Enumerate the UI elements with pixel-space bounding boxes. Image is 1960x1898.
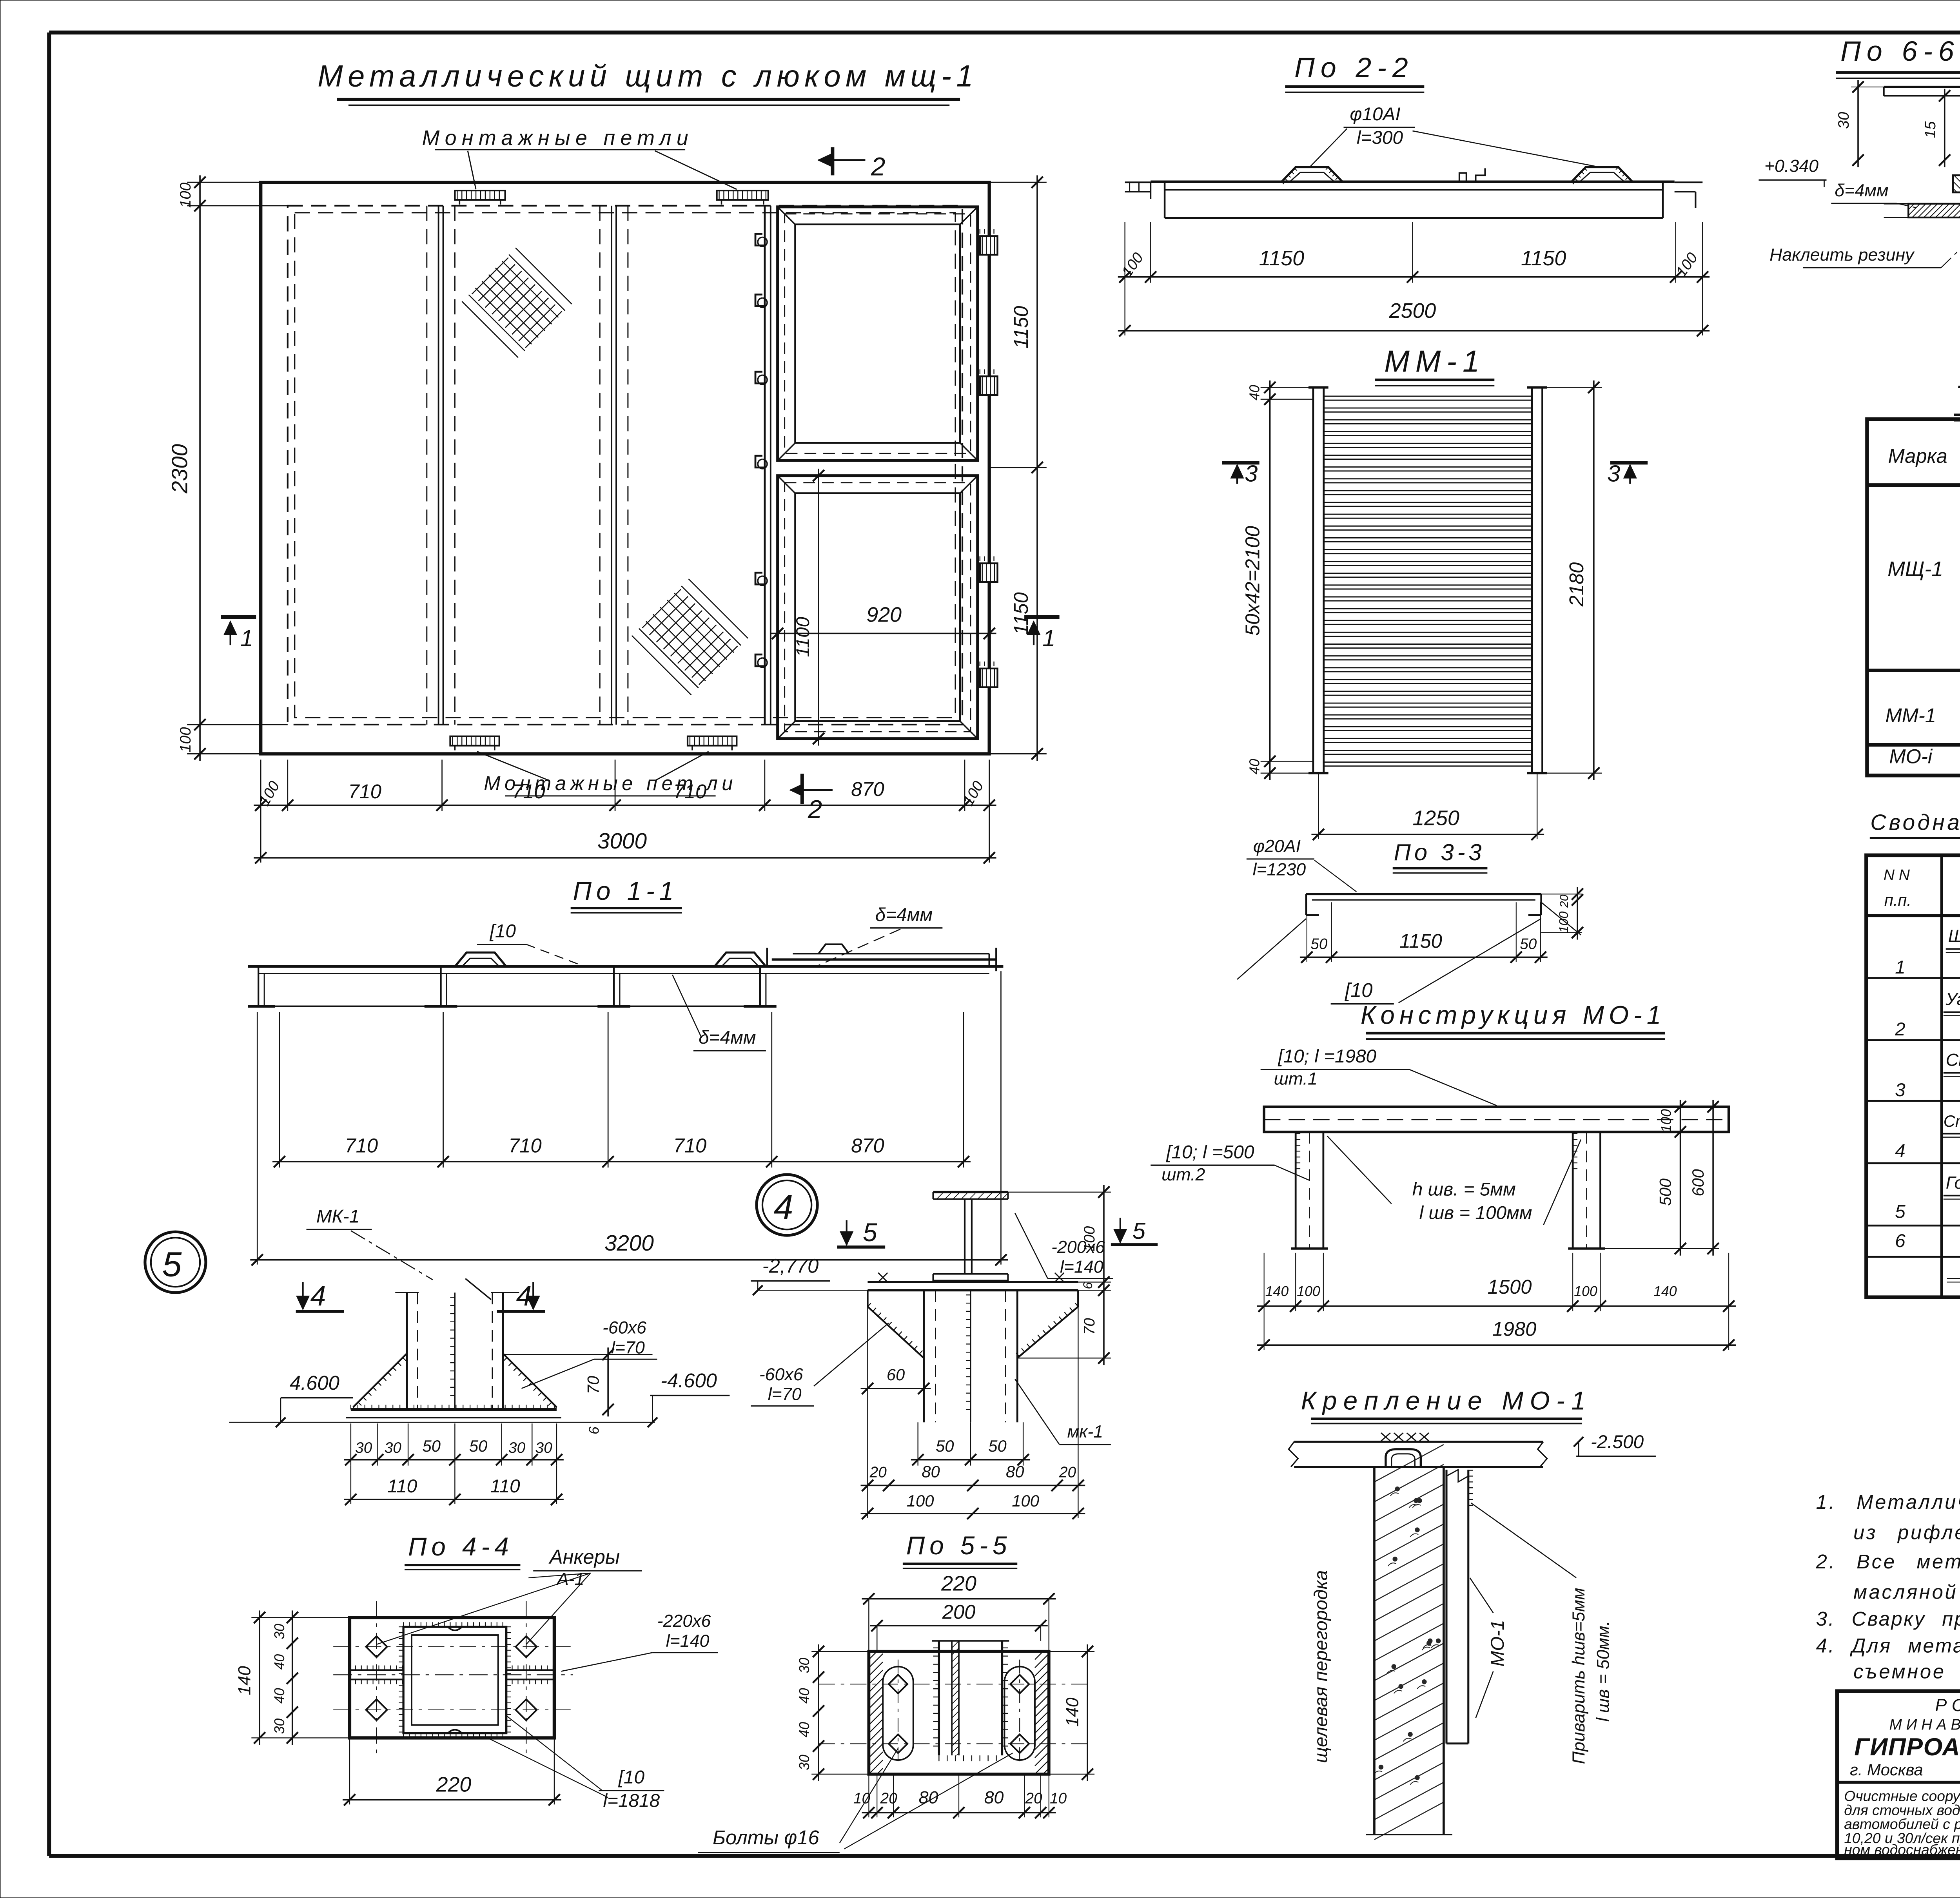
svg-text:Марка: Марка xyxy=(1888,445,1947,467)
svg-text:масляной краской за 2 раза.: масляной краской за 2 раза. xyxy=(1853,1581,1960,1603)
svg-text:Уголки равнобокие по ГОСТ 850: Уголки равнобокие по ГОСТ 8509-57 xyxy=(1945,990,1960,1009)
svg-text:110: 110 xyxy=(490,1476,521,1497)
svg-text:По 3-3: По 3-3 xyxy=(1394,839,1485,865)
svg-text:500: 500 xyxy=(1656,1178,1675,1206)
svg-text:МЩ-1: МЩ-1 xyxy=(1887,557,1943,581)
svg-text:70: 70 xyxy=(584,1376,602,1394)
svg-text:710: 710 xyxy=(348,780,381,803)
svg-text:ММ-1: ММ-1 xyxy=(1885,704,1936,727)
svg-text:-2.500: -2.500 xyxy=(1591,1432,1644,1452)
svg-text:100: 100 xyxy=(1081,1226,1098,1251)
svg-text:Металлический щит с люком мщ-1: Металлический щит с люком мщ-1 xyxy=(318,60,978,93)
svg-text:10: 10 xyxy=(853,1790,871,1807)
svg-text:600: 600 xyxy=(1689,1169,1707,1196)
svg-text:3000: 3000 xyxy=(597,829,647,854)
svg-text:щелевая перегородка: щелевая перегородка xyxy=(1311,1570,1332,1763)
svg-text:1150: 1150 xyxy=(1010,592,1032,635)
svg-text:Горячекатанная арматурная стал: Горячекатанная арматурная сталь xyxy=(1946,1173,1960,1193)
svg-text:По 6-6: По 6-6 xyxy=(1840,36,1960,67)
svg-text:140: 140 xyxy=(235,1666,254,1695)
svg-text:δ=4мм: δ=4мм xyxy=(699,1027,756,1048)
svg-text:3: 3 xyxy=(1895,1080,1906,1100)
svg-text:2: 2 xyxy=(1895,1019,1906,1040)
svg-text:220: 220 xyxy=(436,1773,472,1796)
svg-text:4.600: 4.600 xyxy=(290,1372,339,1394)
svg-text:100: 100 xyxy=(177,182,194,208)
svg-text:40: 40 xyxy=(272,1654,287,1670)
svg-text:6: 6 xyxy=(1895,1231,1906,1251)
svg-text:80: 80 xyxy=(984,1788,1004,1807)
svg-text:[10; l =1980: [10; l =1980 xyxy=(1278,1046,1376,1067)
svg-text:Крепление МО-1: Крепление МО-1 xyxy=(1301,1386,1592,1415)
svg-text:20: 20 xyxy=(869,1464,887,1481)
svg-text:50x42=2100: 50x42=2100 xyxy=(1241,526,1264,636)
svg-text:ММ-1: ММ-1 xyxy=(1384,344,1485,378)
svg-text:Болты φ16: Болты φ16 xyxy=(713,1826,820,1849)
svg-text:МК-1: МК-1 xyxy=(316,1206,359,1227)
svg-text:По 1-1: По 1-1 xyxy=(573,877,679,905)
svg-text:100: 100 xyxy=(1574,1283,1597,1299)
svg-text:N N: N N xyxy=(1884,867,1910,884)
svg-text:4: 4 xyxy=(310,1280,326,1312)
svg-text:Швеллера по ГОСТ 8240-56*: Швеллера по ГОСТ 8240-56* xyxy=(1948,927,1960,946)
svg-text:710: 710 xyxy=(508,1134,542,1157)
svg-text:δ=4мм: δ=4мм xyxy=(1835,181,1888,200)
svg-text:70: 70 xyxy=(1081,1318,1098,1335)
svg-text:30: 30 xyxy=(535,1439,553,1456)
svg-text:[10: [10 xyxy=(618,1767,645,1788)
svg-text:Сталь прокатная универсальная: Сталь прокатная универсальная 103-57 xyxy=(1944,1112,1960,1130)
svg-text:140: 140 xyxy=(1265,1283,1289,1299)
svg-text:2. Все металлические поверхнос: 2. Все металлические поверхности окрашив… xyxy=(1816,1550,1960,1573)
svg-text:710: 710 xyxy=(512,780,545,803)
svg-text:Приварить hшв=5мм: Приварить hшв=5мм xyxy=(1569,1588,1588,1764)
svg-text:-4.600: -4.600 xyxy=(661,1369,717,1392)
svg-text:50: 50 xyxy=(988,1437,1006,1455)
svg-text:6: 6 xyxy=(586,1427,602,1434)
svg-text:1100: 1100 xyxy=(793,617,813,657)
svg-text:140: 140 xyxy=(1063,1697,1082,1727)
svg-text:[10; l =500: [10; l =500 xyxy=(1166,1142,1254,1162)
svg-text:φ10АI: φ10АI xyxy=(1350,104,1400,125)
svg-text:l=70: l=70 xyxy=(768,1385,802,1404)
svg-text:3200: 3200 xyxy=(604,1231,654,1256)
svg-text:100: 100 xyxy=(907,1492,934,1510)
svg-text:10: 10 xyxy=(1050,1790,1067,1807)
svg-text:1500: 1500 xyxy=(1488,1276,1532,1298)
svg-text:ГИПРОАВТОТРАНС: ГИПРОАВТОТРАНС xyxy=(1854,1733,1960,1761)
svg-text:920: 920 xyxy=(866,603,902,627)
svg-text:г. Москва: г. Москва xyxy=(1850,1760,1923,1779)
svg-text:съемное ограждение из цепей.: съемное ограждение из цепей. xyxy=(1853,1660,1960,1682)
svg-text:2500: 2500 xyxy=(1389,299,1436,323)
svg-text:30: 30 xyxy=(1835,112,1852,129)
svg-text:шт.1: шт.1 xyxy=(1274,1069,1318,1088)
svg-text:l=1230: l=1230 xyxy=(1253,860,1306,879)
svg-text:50: 50 xyxy=(469,1437,487,1455)
svg-text:l шв = 100мм: l шв = 100мм xyxy=(1419,1202,1532,1223)
svg-text:2300: 2300 xyxy=(167,444,192,494)
svg-text:30: 30 xyxy=(797,1755,812,1770)
svg-text:1. Металлический щит мщ-1 съем: 1. Металлический щит мщ-1 съемный изгото… xyxy=(1816,1491,1960,1513)
svg-text:Р С Ф С Р: Р С Ф С Р xyxy=(1935,1696,1960,1715)
svg-text:40: 40 xyxy=(797,1722,812,1738)
svg-text:3: 3 xyxy=(1245,460,1258,487)
svg-text:l=1818: l=1818 xyxy=(603,1790,660,1811)
svg-text:-60x6: -60x6 xyxy=(759,1365,803,1384)
svg-text:По 2-2: По 2-2 xyxy=(1294,52,1414,83)
svg-text:80: 80 xyxy=(1006,1462,1024,1481)
svg-text:Анкеры: Анкеры xyxy=(548,1546,620,1568)
svg-text:100: 100 xyxy=(1556,912,1571,933)
svg-text:5: 5 xyxy=(162,1245,182,1284)
svg-text:из рифленной листовой стали.: из рифленной листовой стали. xyxy=(1853,1521,1960,1543)
svg-text:1980: 1980 xyxy=(1492,1318,1537,1340)
svg-text:20: 20 xyxy=(880,1790,898,1807)
svg-text:l=140: l=140 xyxy=(1060,1258,1103,1277)
svg-text:100: 100 xyxy=(1659,1109,1674,1133)
svg-text:М И Н А В Т О Т Р А Н С: М И Н А В Т О Т Р А Н С xyxy=(1889,1717,1960,1733)
svg-text:710: 710 xyxy=(673,780,707,803)
svg-text:50: 50 xyxy=(423,1437,441,1455)
svg-text:100: 100 xyxy=(177,727,194,752)
svg-text:По 5-5: По 5-5 xyxy=(906,1531,1012,1560)
svg-text:[10: [10 xyxy=(490,921,516,942)
svg-text:По 4-4: По 4-4 xyxy=(408,1532,514,1561)
svg-text:1150: 1150 xyxy=(1521,247,1566,270)
svg-text:-2,770: -2,770 xyxy=(762,1255,819,1277)
svg-text:30: 30 xyxy=(797,1658,812,1673)
svg-text:l=140: l=140 xyxy=(666,1632,710,1651)
svg-text:А-1: А-1 xyxy=(556,1570,584,1589)
svg-text:30: 30 xyxy=(355,1439,372,1456)
svg-text:1150: 1150 xyxy=(1399,930,1442,952)
svg-text:l шв = 50мм.: l шв = 50мм. xyxy=(1594,1621,1613,1722)
svg-text:60: 60 xyxy=(887,1365,905,1384)
svg-text:Монтажные петли: Монтажные петли xyxy=(422,126,694,150)
svg-text:l=70: l=70 xyxy=(611,1338,645,1357)
svg-text:220: 220 xyxy=(941,1572,976,1595)
svg-text:80: 80 xyxy=(922,1462,940,1481)
svg-text:4: 4 xyxy=(1895,1140,1906,1161)
svg-text:п.п.: п.п. xyxy=(1884,891,1911,909)
svg-text:40: 40 xyxy=(272,1688,287,1704)
svg-text:МО-i: МО-i xyxy=(1889,745,1933,767)
svg-text:1150: 1150 xyxy=(1259,247,1305,270)
svg-text:30: 30 xyxy=(508,1439,526,1456)
svg-text:110: 110 xyxy=(387,1476,417,1497)
svg-text:100: 100 xyxy=(1012,1492,1039,1510)
svg-text:МО-1: МО-1 xyxy=(1487,1620,1508,1666)
svg-text:1250: 1250 xyxy=(1412,806,1459,830)
svg-text:2180: 2180 xyxy=(1565,562,1588,607)
svg-text:5: 5 xyxy=(1132,1218,1146,1244)
svg-text:1: 1 xyxy=(1895,957,1906,978)
svg-text:30: 30 xyxy=(272,1719,287,1734)
svg-text:2: 2 xyxy=(808,795,822,824)
svg-text:20: 20 xyxy=(1558,894,1571,908)
svg-text:1: 1 xyxy=(1042,625,1055,651)
svg-text:40: 40 xyxy=(797,1688,812,1704)
svg-text:3: 3 xyxy=(1607,460,1620,487)
svg-text:5: 5 xyxy=(1895,1201,1906,1222)
svg-text:шт.2: шт.2 xyxy=(1161,1165,1205,1184)
svg-text:20: 20 xyxy=(1059,1464,1076,1481)
svg-text:-220x6: -220x6 xyxy=(657,1612,711,1631)
svg-text:мк-1: мк-1 xyxy=(1067,1422,1103,1441)
svg-text:ном водоснабжении.: ном водоснабжении. xyxy=(1844,1842,1960,1858)
svg-text:870: 870 xyxy=(851,778,884,800)
svg-text:30: 30 xyxy=(272,1624,287,1639)
svg-text:50: 50 xyxy=(936,1437,954,1455)
svg-text:30: 30 xyxy=(385,1439,402,1456)
svg-text:100: 100 xyxy=(1297,1283,1320,1299)
svg-text:50: 50 xyxy=(1310,936,1328,953)
svg-text:3. Сварку производить электрод: 3. Сварку производить электродами Э-42 h… xyxy=(1816,1608,1960,1630)
svg-text:1: 1 xyxy=(240,625,253,651)
svg-text:710: 710 xyxy=(345,1134,378,1157)
svg-text:200: 200 xyxy=(942,1601,976,1623)
svg-text:Конструкция МО-1: Конструкция МО-1 xyxy=(1361,1001,1666,1029)
svg-text:50: 50 xyxy=(1520,936,1537,953)
svg-text:4. Для металлического мостик: 4. Для металлического мостика ММ-1 преду… xyxy=(1816,1635,1960,1657)
svg-text:φ20АI: φ20АI xyxy=(1253,837,1301,856)
svg-text:1150: 1150 xyxy=(1010,306,1032,349)
svg-text:-60x6: -60x6 xyxy=(603,1318,646,1338)
svg-text:Сводная техническая спецификац: Сводная техническая спецификация на лист xyxy=(1870,810,1960,835)
svg-text:15: 15 xyxy=(1922,121,1939,138)
svg-text:Наклеить резину: Наклеить резину xyxy=(1769,245,1915,265)
svg-text:20: 20 xyxy=(1025,1790,1042,1807)
svg-text:710: 710 xyxy=(673,1134,707,1157)
svg-text:Таблица элементов: Таблица элементов xyxy=(1955,380,1960,413)
svg-text:h шв. = 5мм: h шв. = 5мм xyxy=(1412,1179,1516,1200)
svg-text:[10: [10 xyxy=(1345,979,1372,1001)
svg-text:5: 5 xyxy=(863,1218,877,1247)
svg-text:l=300: l=300 xyxy=(1357,127,1403,148)
svg-text:140: 140 xyxy=(1653,1283,1677,1299)
svg-text:6: 6 xyxy=(1080,1282,1095,1289)
svg-text:40: 40 xyxy=(1247,385,1263,401)
svg-text:+0.340: +0.340 xyxy=(1764,156,1818,176)
svg-text:δ=4мм: δ=4мм xyxy=(875,905,933,925)
svg-text:870: 870 xyxy=(851,1134,884,1157)
svg-text:Сталь листовая по ГОСТ 5681-5: Сталь листовая по ГОСТ 5681-57 xyxy=(1946,1051,1960,1070)
svg-text:4: 4 xyxy=(774,1187,793,1226)
svg-text:2: 2 xyxy=(871,152,886,181)
svg-text:40: 40 xyxy=(1247,759,1263,774)
